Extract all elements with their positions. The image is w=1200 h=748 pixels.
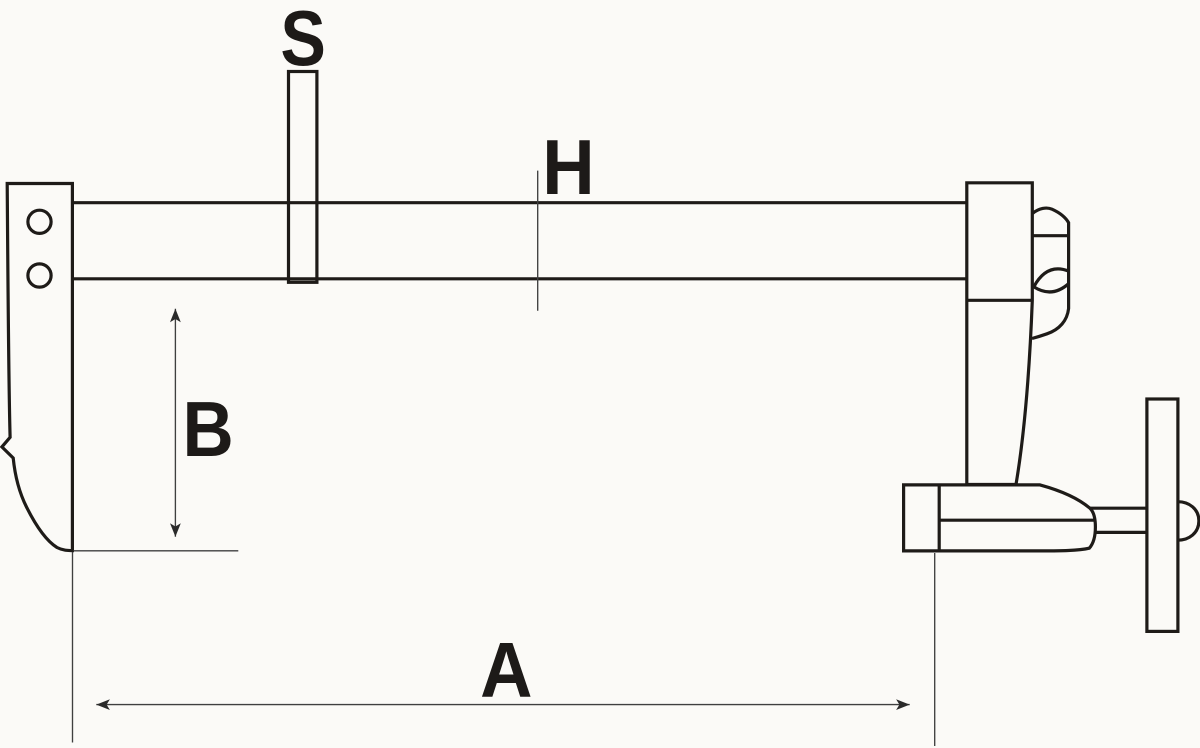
B arrow head bottom <box>170 523 181 537</box>
sliding arm divider line <box>967 299 1033 302</box>
A arrow head left <box>96 699 110 710</box>
handle knob bulge <box>1178 502 1199 541</box>
H tick line <box>537 171 539 311</box>
left extension line <box>72 552 74 743</box>
A dimension line <box>96 704 909 706</box>
A arrow head right <box>896 699 910 710</box>
cam chord line <box>1033 234 1069 237</box>
svg-text:S: S <box>280 0 326 82</box>
cam leaf upper arc <box>1034 269 1069 287</box>
svg-text:H: H <box>542 124 594 211</box>
right extension line <box>934 553 936 746</box>
B bottom reference line <box>74 550 239 552</box>
cam lever body <box>1032 208 1069 338</box>
B arrow head top <box>170 309 181 323</box>
fixed jaw (left) <box>2 184 73 551</box>
housing cap line <box>938 485 941 551</box>
rail bar top edge <box>71 201 968 204</box>
screw housing body <box>904 485 1096 551</box>
screw rod bottom edge <box>1095 531 1147 534</box>
cam leaf lower arc <box>1034 284 1069 292</box>
svg-text:B: B <box>183 385 234 473</box>
svg-text:A: A <box>480 626 532 713</box>
T-handle bar <box>1147 399 1178 631</box>
sliding arm upper block and shaft <box>967 183 1033 485</box>
slider plate S <box>289 72 317 283</box>
B dimension line <box>174 309 176 537</box>
housing inner line <box>939 519 1094 522</box>
rail bar bottom edge <box>71 277 968 280</box>
screw rod top edge <box>1090 507 1147 510</box>
fixed jaw lower hole <box>28 264 51 287</box>
fixed jaw upper hole <box>28 210 51 233</box>
